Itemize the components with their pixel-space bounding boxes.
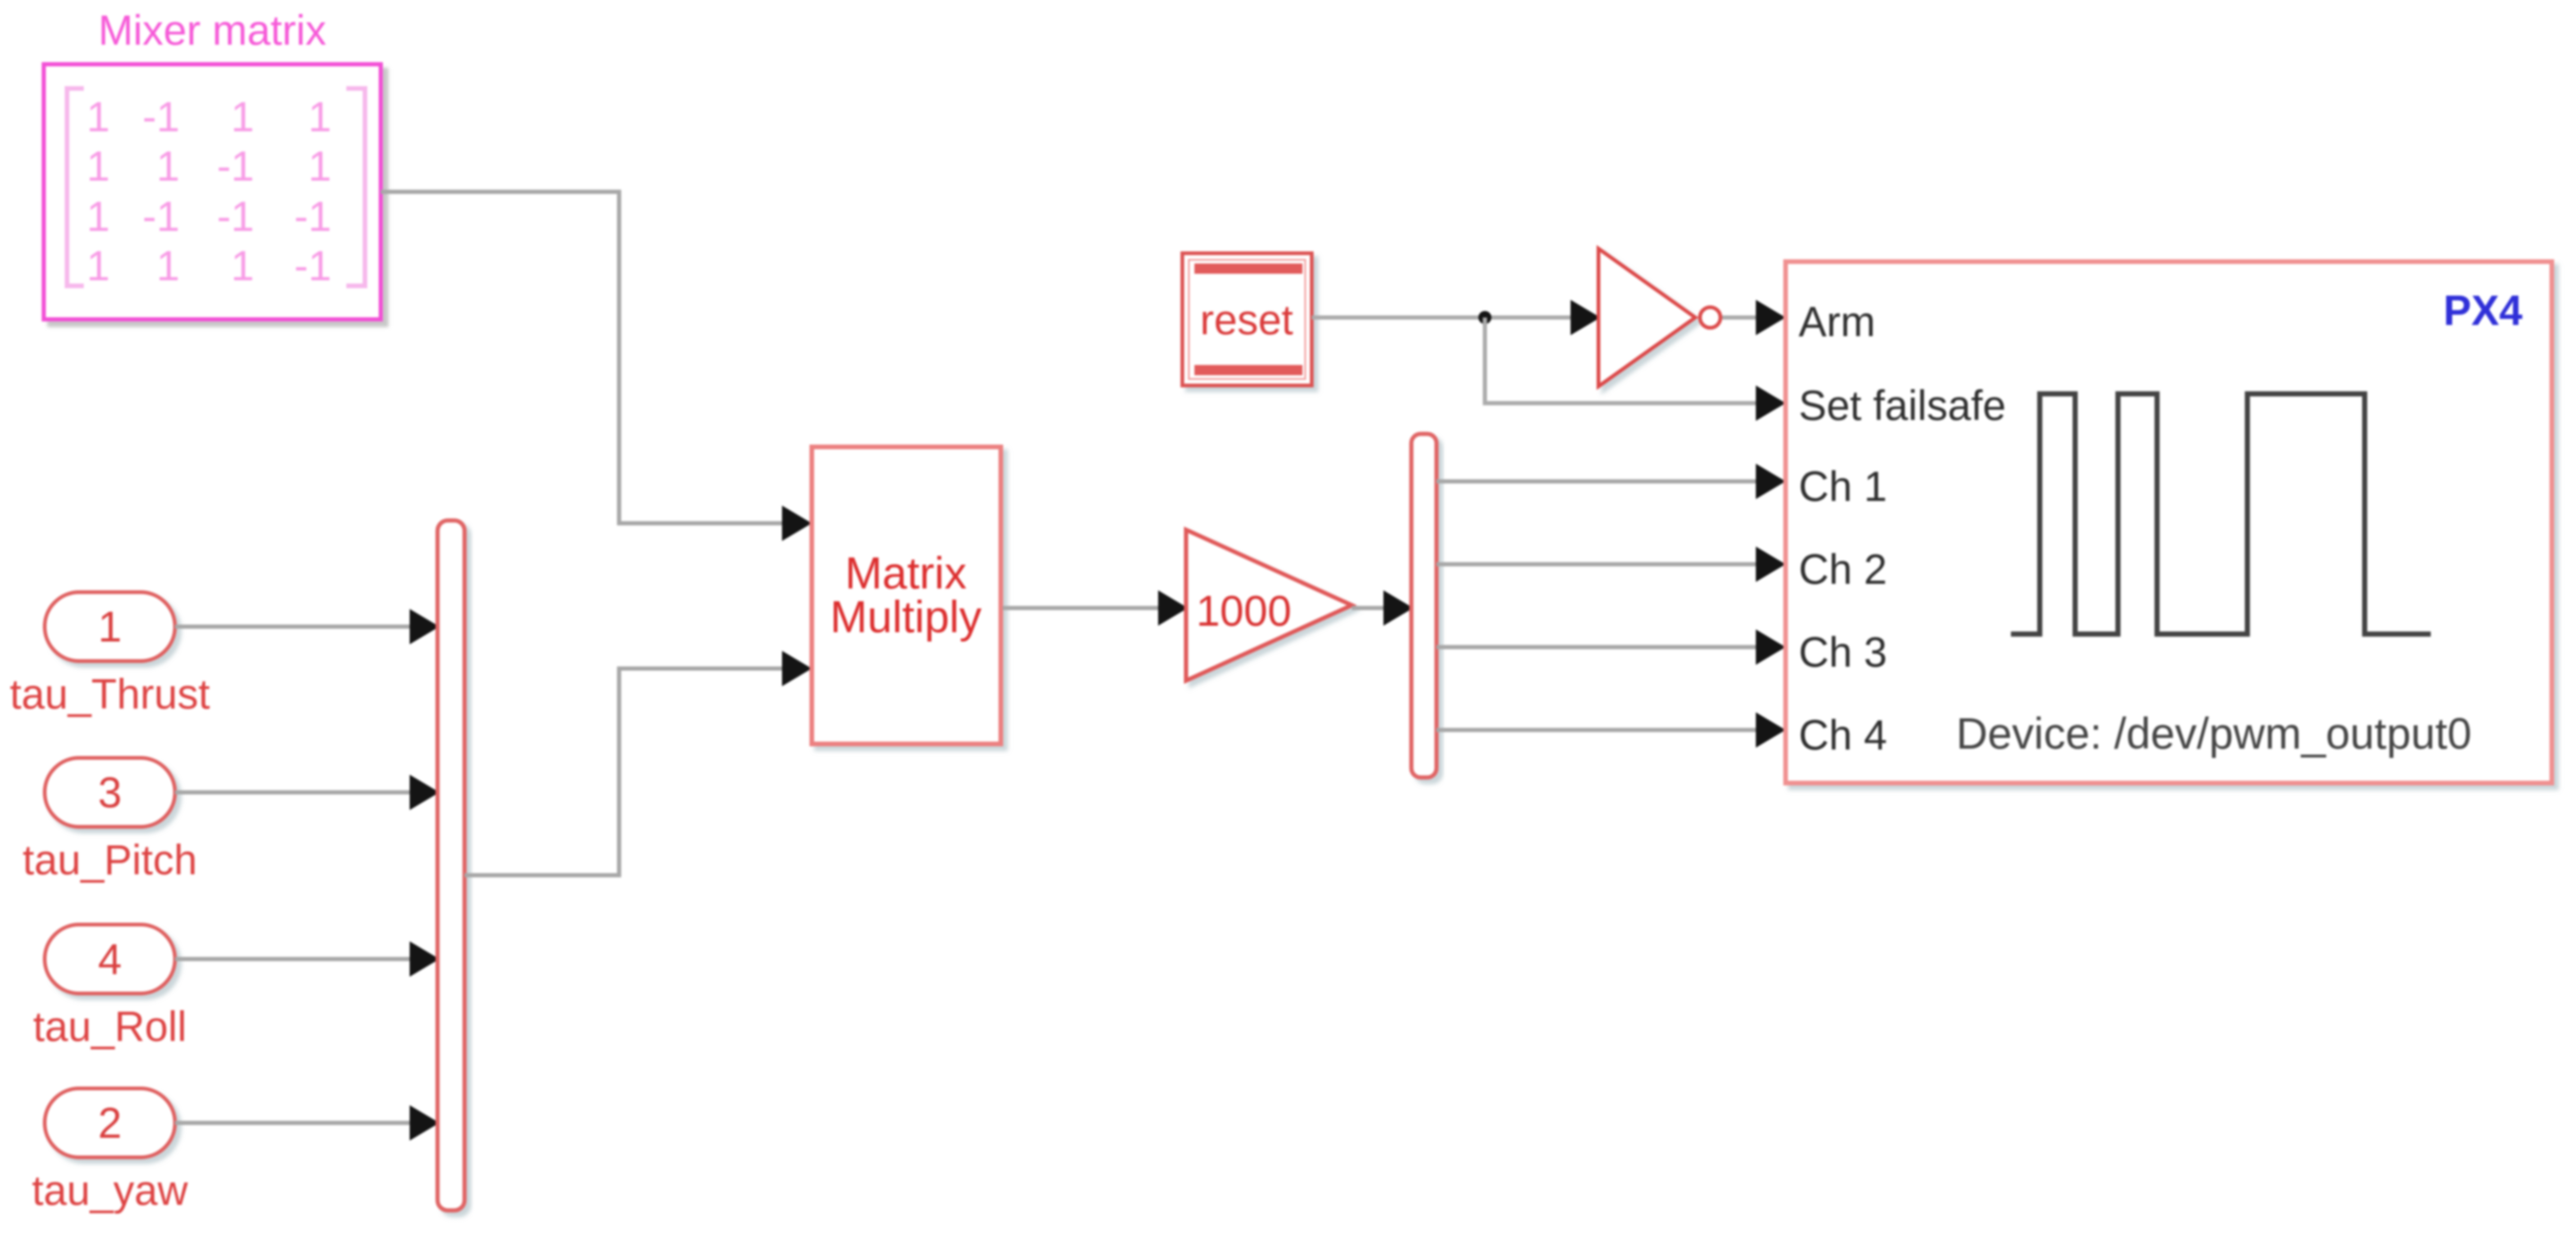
label: tau_Pitch [22, 836, 197, 884]
svg-text:Ch 3: Ch 3 [1799, 628, 1887, 676]
wire: demux out3 to Ch 3 [1436, 629, 1786, 665]
svg-text:-1: -1 [217, 142, 254, 190]
port label: Ch 3 [1799, 628, 1887, 676]
label: Mixer matrix title [99, 7, 327, 54]
svg-text:tau_Pitch: tau_Pitch [22, 836, 197, 884]
wire: demux out4 to Ch 4 [1436, 712, 1786, 748]
wire: demux out1 to Ch 1 [1436, 464, 1786, 499]
svg-text:-1: -1 [142, 193, 180, 240]
svg-text:Mixer matrix: Mixer matrix [99, 7, 327, 54]
port label: Arm [1799, 298, 1876, 345]
svg-text:-1: -1 [294, 193, 331, 240]
wire: Mixer matrix output to Matrix Multiply in1 [381, 192, 812, 541]
svg-text:Set failsafe: Set failsafe [1799, 382, 2006, 429]
mux [438, 520, 465, 1210]
port label: Ch 4 [1799, 711, 1887, 759]
PWM waveform icon [2011, 394, 2431, 634]
gain 1000 [1186, 530, 1352, 681]
svg-text:1: 1 [308, 93, 331, 141]
port label: Set failsafe [1799, 382, 2006, 429]
inport 3 tau_Pitch [45, 758, 175, 827]
port label: Ch 1 [1799, 463, 1887, 510]
junction [1478, 311, 1491, 324]
port label: Ch 2 [1799, 546, 1887, 593]
svg-text:2: 2 [98, 1099, 122, 1147]
matrix right bracket [346, 88, 365, 286]
svg-text:Ch 2: Ch 2 [1799, 546, 1887, 593]
svg-text:1: 1 [87, 93, 110, 141]
matrix values [87, 93, 331, 290]
svg-text:Device: /dev/pwm_output0: Device: /dev/pwm_output0 [1956, 709, 2472, 758]
wire: inport 4 to mux [175, 941, 439, 977]
wire: reset to NOT gate [1312, 300, 1600, 335]
svg-text:1: 1 [156, 142, 180, 190]
inport 4 tau_Roll [45, 925, 175, 993]
matrix left bracket [67, 88, 84, 286]
svg-text:Arm: Arm [1799, 298, 1876, 345]
svg-text:1: 1 [87, 242, 110, 290]
label: tau_Roll [33, 1003, 186, 1050]
svg-text:-1: -1 [294, 242, 331, 290]
svg-text:1: 1 [308, 142, 331, 190]
svg-text:tau_yaw: tau_yaw [32, 1167, 188, 1214]
block: reset [1182, 253, 1312, 385]
NOT gate [1598, 249, 1720, 386]
svg-text:1: 1 [156, 242, 180, 290]
label: tau_Thrust [9, 670, 210, 718]
wire: mux output to Matrix Multiply in2 [465, 651, 812, 875]
svg-text:-1: -1 [142, 93, 180, 141]
svg-text:-1: -1 [217, 193, 254, 240]
svg-text:Ch 4: Ch 4 [1799, 711, 1887, 759]
svg-text:reset: reset [1200, 296, 1294, 344]
block: Matrix Multiply [812, 447, 1001, 744]
label: PX4 [2443, 287, 2522, 334]
label: tau_yaw [32, 1167, 188, 1214]
svg-text:3: 3 [98, 768, 122, 817]
svg-text:tau_Roll: tau_Roll [33, 1003, 186, 1050]
constant block: Mixer matrix [44, 64, 381, 319]
svg-text:Matrix: Matrix [845, 549, 967, 599]
svg-text:1: 1 [231, 242, 254, 290]
svg-text:PX4: PX4 [2443, 287, 2522, 334]
block: PX4 [1786, 262, 2552, 783]
wire: demux out2 to Ch 2 [1436, 547, 1786, 582]
svg-text:tau_Thrust: tau_Thrust [9, 670, 210, 718]
svg-text:1: 1 [231, 93, 254, 141]
label: Device: /dev/pwm_output0 [1956, 709, 2472, 758]
wire: inport 1 to mux [175, 609, 439, 644]
svg-text:4: 4 [98, 935, 122, 983]
wire: inport 3 to mux [175, 775, 439, 810]
wire: branch to Set failsafe [1485, 318, 1786, 421]
svg-text:1: 1 [87, 142, 110, 190]
svg-text:1000: 1000 [1196, 587, 1291, 635]
svg-text:Ch 1: Ch 1 [1799, 463, 1887, 510]
demux [1411, 434, 1436, 777]
svg-text:1: 1 [87, 193, 110, 240]
svg-text:Multiply: Multiply [830, 593, 982, 642]
wire: inport 2 to mux [175, 1105, 439, 1141]
inport 1 tau_Thrust [45, 592, 175, 661]
inport 2 tau_yaw [45, 1088, 175, 1157]
wire: gain to demux [1352, 590, 1413, 626]
svg-text:1: 1 [98, 602, 122, 651]
wire: Matrix Multiply to gain [1003, 590, 1188, 626]
wire: NOT gate to Arm [1722, 300, 1786, 335]
